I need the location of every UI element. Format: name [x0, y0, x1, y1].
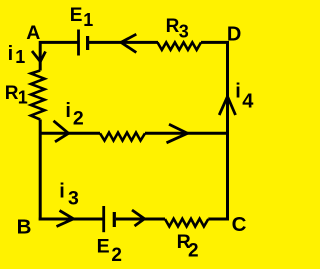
svg-text:C: C	[232, 213, 247, 236]
svg-text:R: R	[166, 16, 180, 37]
label R1	[5, 83, 28, 108]
resistor R3	[158, 42, 202, 50]
svg-text:1: 1	[15, 47, 25, 67]
svg-text:4: 4	[242, 90, 254, 112]
svg-text:i: i	[65, 100, 71, 122]
svg-text:3: 3	[68, 187, 79, 209]
resistor (middle, unlabeled)	[100, 133, 145, 141]
label E1	[70, 5, 93, 30]
wire: node B to battery E2	[39, 218, 103, 221]
wire: node A to battery E1	[39, 41, 77, 44]
wire: battery E1 to resistor R3	[89, 41, 158, 44]
svg-text:i: i	[59, 181, 65, 203]
svg-text:D: D	[227, 23, 241, 45]
resistor R2	[165, 219, 208, 227]
svg-text:2: 2	[188, 241, 199, 262]
svg-text:E: E	[97, 236, 110, 258]
wire: resistor R1 down to node B	[39, 120, 42, 221]
wire: resistor R2 to node C	[208, 218, 229, 221]
svg-text:R: R	[5, 83, 19, 104]
label i3	[59, 181, 79, 210]
current arrow i3 (pointing right on bottom wire)	[57, 211, 74, 227]
svg-text:A: A	[26, 22, 40, 44]
current arrow after E2 (pointing right)	[132, 210, 145, 226]
svg-text:E: E	[70, 5, 83, 26]
svg-text:1: 1	[83, 10, 93, 30]
label R3	[166, 16, 189, 42]
wire: left side, A down to resistor R1	[39, 41, 42, 71]
label i2	[65, 100, 84, 130]
wire: battery E2 to resistor R2	[116, 218, 165, 221]
svg-text:2: 2	[73, 108, 84, 130]
current arrow i4 (pointing up on right wire)	[219, 97, 235, 116]
wire: right side, D down to C	[226, 41, 229, 221]
current arrow i1 (pointing down on left wire)	[32, 51, 46, 62]
resistor R1 (vertical zigzag)	[31, 71, 45, 120]
svg-text:1: 1	[18, 88, 28, 108]
wire: middle resistor to right wire	[145, 132, 228, 135]
label i1	[8, 43, 26, 67]
battery E2	[104, 206, 115, 232]
label E2	[97, 236, 122, 267]
label R2	[177, 231, 199, 262]
svg-text:i: i	[8, 43, 14, 65]
current arrow on top wire (pointing left)	[121, 34, 136, 52]
svg-text:i: i	[235, 81, 241, 103]
wire: resistor R3 to node D	[201, 41, 229, 44]
svg-text:2: 2	[111, 245, 122, 266]
svg-text:3: 3	[179, 22, 189, 42]
current arrow on middle wire (pointing right, near D side)	[167, 124, 188, 143]
wire: middle branch, left wire to middle resistor	[40, 132, 100, 135]
svg-text:B: B	[17, 216, 32, 239]
current arrow i2 (pointing right on middle wire)	[54, 121, 69, 142]
label i4	[235, 81, 254, 113]
battery E1	[79, 30, 88, 56]
